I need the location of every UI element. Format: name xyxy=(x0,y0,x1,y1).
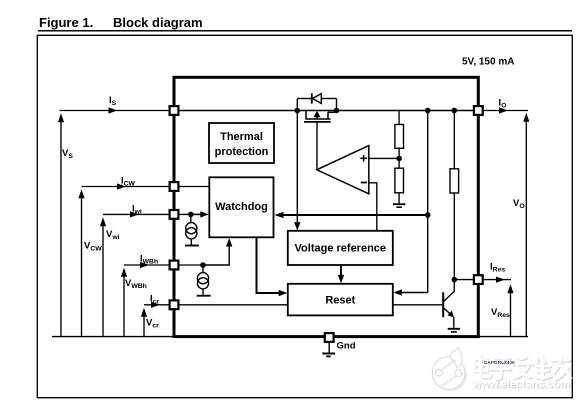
node: divider midpoint xyxy=(396,156,402,162)
pin Icr xyxy=(170,300,179,309)
wire: minus input to reference xyxy=(369,183,377,231)
ground (CS1) xyxy=(185,245,199,247)
diode D1 (bypass) xyxy=(297,93,336,110)
svg-text:Block diagram: Block diagram xyxy=(113,15,203,30)
arrow IWBh xyxy=(140,262,149,268)
voltage arrow Vcr xyxy=(143,312,145,337)
wire: feed arrow into voltage reference xyxy=(296,111,298,229)
ground (Q2 emitter) xyxy=(448,329,460,332)
voltage arrow Vwi xyxy=(102,221,104,337)
wire: Icr to reset xyxy=(174,304,288,306)
arrow into watchdog (Iwi) xyxy=(200,211,209,217)
ground (CS2) xyxy=(197,295,211,297)
pin Io xyxy=(474,106,483,115)
arrow Io xyxy=(499,107,508,113)
wire Iwi xyxy=(103,213,191,215)
current source CS2 xyxy=(197,265,208,295)
voltage arrow Vo xyxy=(525,117,527,337)
pin Gnd xyxy=(325,333,334,342)
svg-text:Reset: Reset xyxy=(325,295,355,307)
wire: output rail xyxy=(478,110,528,112)
watermark url text xyxy=(472,379,572,392)
svg-text:Gnd: Gnd xyxy=(337,341,356,352)
svg-text:5V, 150 mA: 5V, 150 mA xyxy=(462,57,514,68)
pin Iwi xyxy=(170,210,179,219)
wire: voltage reference to reset xyxy=(340,265,342,281)
transistor Q1 pass MOSFET xyxy=(304,111,337,170)
ground (divider) xyxy=(393,204,406,207)
voltage arrow VWBh xyxy=(123,272,125,337)
arrow Icw xyxy=(117,183,126,189)
pin IRes xyxy=(474,275,483,284)
ground (Gnd pin) xyxy=(322,342,335,357)
pin IWBh xyxy=(170,261,179,270)
wire: IWBh to watchdog bottom xyxy=(203,241,229,265)
svg-text:GAPGRL2406: GAPGRL2406 xyxy=(484,360,516,366)
arrow Icr xyxy=(151,302,160,308)
resistor R2 divider bottom xyxy=(395,158,404,203)
voltage reference box xyxy=(288,231,393,265)
svg-text:Voltage reference: Voltage reference xyxy=(295,243,387,255)
node: Iwi junction xyxy=(188,212,194,218)
node: collector junction xyxy=(452,277,458,283)
resistor R3 pull-up xyxy=(450,108,459,280)
wire: internal top rail xyxy=(174,110,478,112)
svg-text:Figure 1.: Figure 1. xyxy=(39,15,93,30)
wire: ground baseline xyxy=(52,336,528,338)
svg-text:Watchdog: Watchdog xyxy=(215,201,268,213)
wire Icr xyxy=(144,304,174,306)
wire: watchdog to reset xyxy=(257,237,286,293)
svg-text:www.elecfans.com: www.elecfans.com xyxy=(472,379,570,391)
IC boundary box xyxy=(174,77,478,336)
wire: feed arrow into reset right xyxy=(396,292,428,294)
wire: input supply rail xyxy=(60,110,175,112)
voltage arrow VS xyxy=(60,117,62,337)
node: IWBh junction xyxy=(200,262,206,268)
current source CS1 xyxy=(186,214,197,244)
node: rail junction right of mosfet xyxy=(334,108,340,114)
thermal protection box xyxy=(209,123,274,163)
resistor R1 divider top xyxy=(395,111,404,159)
pin Is xyxy=(170,106,179,115)
wire: plus input to divider xyxy=(369,157,399,159)
pin Icw xyxy=(170,182,179,191)
wire Icw xyxy=(82,186,210,188)
arrow IRes xyxy=(496,277,505,283)
op-amp A1 error amplifier xyxy=(317,146,369,194)
arrow Iwi xyxy=(130,211,139,217)
arrow Is xyxy=(109,107,118,113)
watchdog box xyxy=(209,177,273,237)
svg-text:protection: protection xyxy=(215,146,269,158)
wire IWBh xyxy=(124,264,204,266)
node: rail junction at supply feed xyxy=(425,108,431,114)
voltage arrow VRes xyxy=(510,288,512,337)
reset box xyxy=(288,284,393,316)
wire IRes xyxy=(454,279,511,281)
voltage arrow Vcw xyxy=(81,193,83,337)
node: feed junction xyxy=(425,212,431,218)
svg-text:Thermal: Thermal xyxy=(220,131,263,143)
title rule xyxy=(38,30,572,32)
watermark logo xyxy=(432,348,466,392)
node: rail junction left of mosfet xyxy=(295,108,301,114)
watermark chinese characters xyxy=(474,356,571,381)
wire: bold feed to watchdog xyxy=(277,214,428,216)
transistor Q2 reset output xyxy=(393,280,454,328)
wire: supply feed down xyxy=(427,111,429,293)
